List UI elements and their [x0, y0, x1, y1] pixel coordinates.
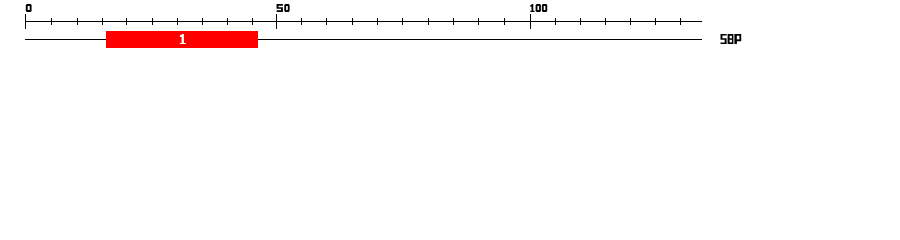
ruler line — [25, 21, 702, 22]
ruler scale label 50: digit 5 — [277, 4, 283, 12]
ruler scale label 50: digit 0 — [284, 4, 289, 12]
domain number label 1 (white digit) — [180, 34, 186, 44]
ruler scale label 100: digit 1 — [530, 4, 534, 12]
minor ticks — [52, 18, 681, 25]
sequence backbone line — [25, 39, 702, 40]
ruler scale label 100: second digit 0 — [542, 4, 547, 12]
sequence name label SBP: letter P — [734, 34, 741, 44]
background — [0, 0, 900, 58]
domain box 1 (red) — [106, 31, 258, 48]
major tick 100 — [530, 14, 531, 29]
sequence name label SBP: letter B — [728, 34, 734, 44]
major tick 0 — [25, 14, 26, 29]
sequence name label SBP: letter S — [721, 34, 727, 44]
ruler scale label 100: digit 0 — [536, 4, 541, 12]
ruler scale label 0 — [26, 4, 32, 12]
major tick 50 — [276, 14, 277, 29]
